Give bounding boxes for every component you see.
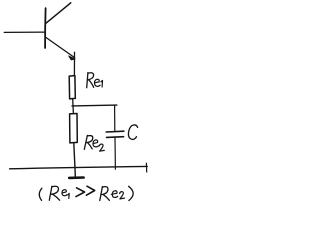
base bar	[44, 8, 47, 48]
resistor Re2	[70, 114, 78, 143]
)	[129, 186, 134, 200]
base lead	[4, 31, 45, 33]
sub 2	[120, 192, 125, 199]
cap bottom wire	[114, 138, 116, 170]
>> second	[86, 186, 94, 195]
e	[62, 190, 67, 196]
ground tick	[69, 176, 83, 179]
resistor Re1	[69, 76, 75, 99]
R	[100, 187, 103, 201]
label Re2	[84, 135, 104, 151]
>> first	[76, 188, 85, 197]
collector lead	[46, 3, 71, 23]
cap top wire	[114, 106, 116, 131]
transistor Q1	[4, 3, 75, 60]
caption ( Re1 >> Re2 )	[39, 186, 133, 200]
wire Re2 to ground rail	[74, 143, 76, 177]
wire Re1 to Re2	[72, 99, 75, 114]
label C	[128, 125, 137, 139]
(	[39, 188, 42, 200]
rail end tick	[145, 163, 147, 172]
sub 1	[68, 193, 70, 198]
node wire to capacitor	[72, 104, 117, 107]
e	[111, 191, 117, 198]
label Re1	[87, 73, 103, 88]
emitter arrowhead	[69, 56, 76, 60]
cap bottom plate	[107, 136, 124, 139]
emitter lead	[46, 38, 74, 58]
R	[49, 186, 52, 200]
ground rail	[10, 166, 148, 168]
capacitor C	[106, 106, 124, 170]
wire emitter to Re1	[73, 52, 75, 76]
cap top plate	[106, 130, 124, 133]
